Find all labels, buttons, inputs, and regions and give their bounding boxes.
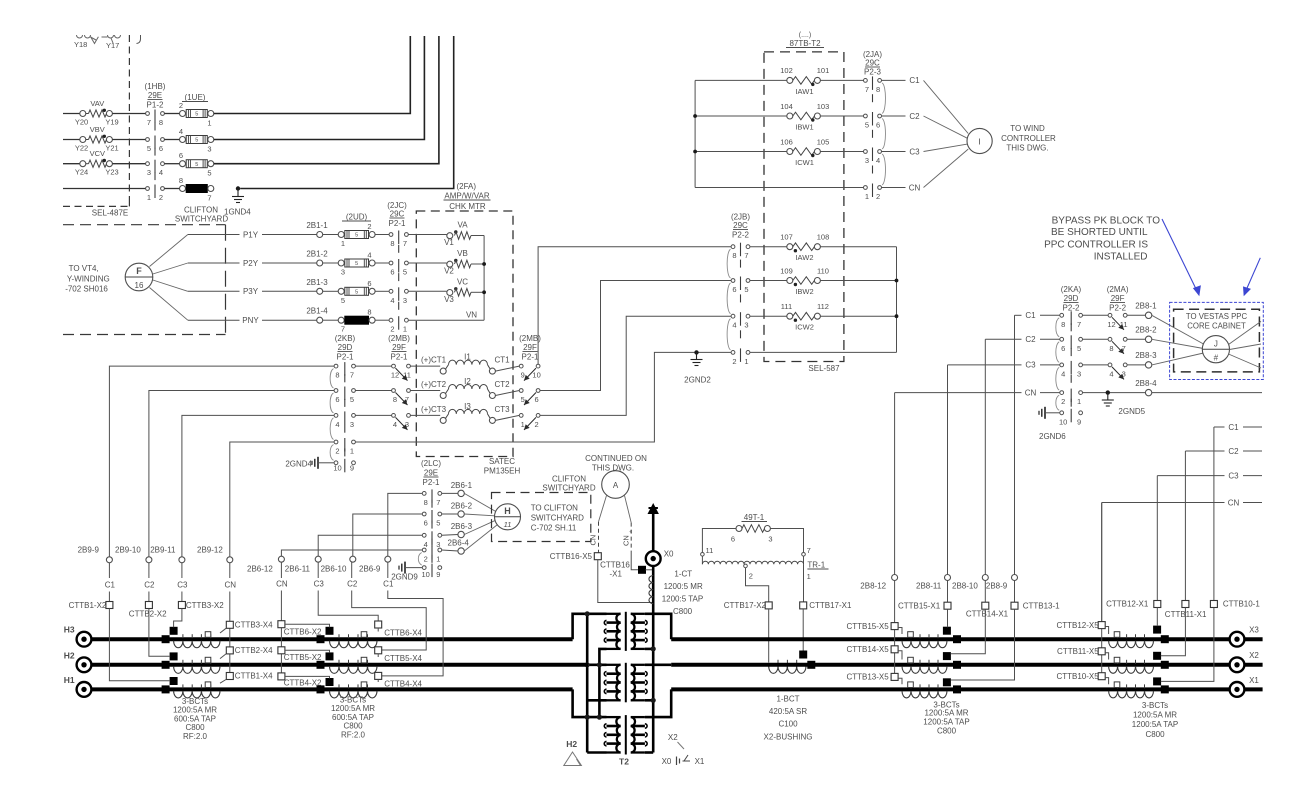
terminal block 2KA 29D P2-2 labels [1061, 285, 1082, 313]
svg-text:IBW2: IBW2 [795, 287, 813, 296]
svg-text:C1: C1 [383, 580, 394, 589]
bus X3 phase A right [671, 637, 1262, 641]
svg-text:109: 109 [780, 266, 793, 275]
wire [1127, 314, 1145, 316]
switch 2JB row 4-3 [727, 312, 750, 350]
svg-text:C800: C800 [937, 726, 957, 735]
svg-text:TO WIND: TO WIND [1010, 124, 1045, 133]
svg-text:C1: C1 [1025, 311, 1036, 320]
svg-text:P2-2: P2-2 [1063, 304, 1080, 313]
svg-text:CTTB11-X5: CTTB11-X5 [1057, 647, 1099, 656]
svg-text:3: 3 [341, 268, 345, 277]
svg-text:2B1-3: 2B1-3 [306, 278, 328, 287]
svg-text:4: 4 [1061, 369, 1065, 378]
wire [375, 234, 389, 236]
svg-text:2B6-2: 2B6-2 [451, 502, 473, 511]
svg-text:101: 101 [817, 66, 830, 75]
svg-text:110: 110 [817, 266, 829, 275]
switch 2KB row 10-9 [330, 445, 355, 473]
svg-text:7: 7 [744, 251, 748, 260]
terminal 2B1-4 [306, 307, 328, 324]
label CLIFTON SWITCHYARD (upper) [175, 206, 228, 224]
svg-text:3: 3 [865, 156, 869, 165]
switch 2MB row 8-7 [392, 389, 411, 405]
svg-text:8: 8 [335, 371, 339, 380]
label CLIFTON SWITCHYARD (H block) [542, 475, 595, 493]
svg-text:Y22: Y22 [75, 144, 88, 153]
svg-text:I: I [978, 137, 980, 147]
svg-text:VAV: VAV [90, 99, 104, 108]
svg-text:2: 2 [424, 555, 428, 564]
wire [164, 139, 179, 141]
svg-text:I3: I3 [464, 402, 471, 411]
switch 2MA row 8-7 [1108, 337, 1127, 353]
connector black square above bus [800, 651, 807, 658]
CT group D windings CTTB10-12 [1109, 632, 1154, 698]
resistor VA [444, 221, 471, 248]
svg-text:C800: C800 [673, 607, 693, 616]
svg-text:1200:5 TAP: 1200:5 TAP [662, 595, 704, 604]
svg-text:2B6-3: 2B6-3 [451, 522, 473, 531]
svg-text:C3: C3 [909, 147, 920, 156]
terminal CTTB13-X5 [846, 673, 898, 682]
fan wires J to right [1229, 321, 1262, 368]
black connector squares group D [1154, 626, 1169, 693]
riser 2B8-10 / C2 [984, 339, 986, 574]
blue wavy boundary Vestas PPC [1170, 302, 1264, 379]
svg-text:SWITCHYARD: SWITCHYARD [175, 215, 228, 224]
wire C1 group B [382, 562, 443, 676]
svg-text:2B9-12: 2B9-12 [197, 546, 223, 555]
svg-text:4: 4 [732, 321, 736, 330]
switch 2KB row 8-7 [330, 362, 355, 388]
svg-text:3: 3 [350, 420, 354, 429]
svg-text:6: 6 [390, 268, 394, 277]
svg-text:10: 10 [422, 570, 430, 579]
PT element VAV [86, 109, 107, 117]
svg-text:CTTB5-X4: CTTB5-X4 [384, 654, 422, 663]
terminal 2B6-12 [247, 556, 284, 573]
terminal CTTB3-X4 [226, 621, 273, 630]
terminal 2B8-12 [860, 575, 897, 591]
svg-text:V2: V2 [444, 267, 454, 276]
svg-text:1-CT: 1-CT [674, 570, 692, 579]
svg-text:2: 2 [876, 192, 880, 201]
switch 2KB row 2-1 [334, 438, 355, 456]
svg-text:11: 11 [504, 520, 512, 529]
switch 1HB row 1-2 [146, 185, 165, 203]
tap 2 of TR-1 [744, 564, 769, 602]
wire C2 from CT risers to 2KA [985, 335, 1060, 344]
wire C3 drop to CT group D [1157, 471, 1262, 600]
wire 2KB row 3 to 2B9 riser [182, 415, 334, 556]
svg-text:7: 7 [807, 546, 811, 555]
svg-text:CT3: CT3 [495, 405, 511, 414]
svg-text:5: 5 [1077, 344, 1081, 353]
shorting resistor IAW1 (102-101) [780, 66, 829, 96]
svg-text:1200:5A TAP: 1200:5A TAP [923, 718, 969, 727]
svg-text:104: 104 [780, 102, 793, 111]
terminal Y21 [106, 137, 112, 143]
svg-text:C1: C1 [105, 581, 116, 590]
svg-text:2: 2 [1061, 397, 1065, 406]
svg-text:4: 4 [424, 540, 428, 549]
wire CTTB11-X1 to CT middle [1161, 608, 1186, 656]
svg-text:P2-1: P2-1 [391, 353, 408, 362]
label group A ratings [173, 697, 217, 741]
svg-text:7: 7 [341, 325, 345, 334]
svg-text:1: 1 [744, 357, 748, 366]
terminal block 2JA 29C P2-3 labels [863, 50, 882, 77]
wire C1 to CT bottom [109, 609, 170, 681]
wire voltage common bus [482, 236, 486, 321]
svg-text:8: 8 [1109, 344, 1113, 353]
terminal X0 bullseye [646, 550, 674, 566]
svg-text:(1HB): (1HB) [145, 82, 166, 91]
svg-text:4: 4 [179, 127, 183, 136]
svg-text:P2-1: P2-1 [423, 478, 440, 487]
transformer TR-1 winding [702, 561, 828, 582]
svg-text:29E: 29E [424, 469, 438, 478]
svg-text:4: 4 [159, 168, 163, 177]
wire [1083, 314, 1109, 316]
wire row VAV [63, 113, 80, 115]
CT 1-CT winding on X0 [649, 576, 653, 604]
wire [410, 365, 440, 367]
svg-text:2GND5: 2GND5 [1118, 407, 1145, 416]
svg-text:Y24: Y24 [75, 168, 88, 177]
wire [820, 246, 896, 248]
switch 1HB row 7-8 [146, 110, 165, 131]
svg-text:5: 5 [195, 138, 198, 144]
svg-text:12: 12 [391, 371, 399, 380]
switch 2LC row 2-1 [422, 546, 441, 564]
wire 2KB row 2 to 2B9 riser [149, 391, 334, 557]
switch 2LC row 6-5 [422, 510, 441, 529]
wires CN to X2 blacks [285, 624, 330, 678]
fan wire A right [625, 496, 632, 523]
svg-text:C2: C2 [144, 581, 155, 590]
terminal X1 [1230, 676, 1260, 697]
black connector squares group A [162, 627, 177, 693]
svg-text:6: 6 [876, 121, 880, 130]
terminal block 2KB 29D P2-1 labels [335, 334, 356, 362]
svg-text:SATEC: SATEC [489, 457, 515, 466]
wire row 4 to riser [240, 36, 454, 189]
svg-text:CN: CN [622, 535, 631, 546]
svg-text:5: 5 [195, 162, 198, 168]
svg-text:TO VT4,: TO VT4, [69, 264, 99, 273]
svg-text:CN: CN [909, 183, 921, 192]
fuse 1UE row 6/5 [179, 151, 214, 178]
terminal 2B8-4 [1135, 379, 1157, 396]
svg-text:PM135EH: PM135EH [484, 467, 521, 476]
dashed box TO VESTAS PPC CORE CABINET [1174, 309, 1260, 372]
shorting resistor ICW2 (111-112) [781, 302, 829, 332]
svg-text:12: 12 [1107, 320, 1115, 329]
svg-text:Y18: Y18 [74, 40, 87, 49]
voltage input V1 [447, 230, 458, 238]
wire [410, 414, 440, 416]
bus X1 phase C right [671, 687, 1262, 691]
svg-text:49T-1: 49T-1 [744, 513, 765, 522]
svg-text:(....): (....) [799, 32, 811, 39]
terminal 2B8-9 [986, 575, 1018, 591]
terminal CTTB17-X1 [800, 564, 852, 610]
wire C1 from CT risers to 2KA [1015, 311, 1060, 320]
svg-text:6: 6 [424, 519, 428, 528]
svg-text:5: 5 [521, 395, 525, 404]
wire CT3 to 2JB pin 4 [540, 316, 731, 415]
switch 2JB row 8-7 [727, 243, 750, 278]
svg-text:X0: X0 [664, 550, 674, 559]
svg-text:X2: X2 [1249, 651, 1259, 660]
svg-text:2B8-1: 2B8-1 [1135, 302, 1157, 311]
svg-text:5: 5 [355, 290, 358, 296]
svg-text:-702 SH016: -702 SH016 [65, 285, 108, 294]
svg-text:7: 7 [1077, 320, 1081, 329]
svg-text:CTTB3-X4: CTTB3-X4 [235, 621, 273, 630]
riser 2B8-11 / C3 [947, 365, 949, 575]
svg-text:J: J [1214, 340, 1218, 349]
fuse block 2UD label [342, 213, 371, 222]
blue leader line 2 [1243, 258, 1260, 297]
label X2 wye grounding [662, 733, 705, 766]
svg-text:4: 4 [1109, 369, 1113, 378]
wire [355, 390, 391, 392]
wire [495, 415, 519, 420]
wire C2 drop to CT group D [1185, 447, 1262, 601]
svg-text:BYPASS PK BLOCK TO: BYPASS PK BLOCK TO [1052, 216, 1161, 227]
wire row 3 to riser [214, 36, 439, 164]
svg-text:(2LC): (2LC) [421, 459, 441, 468]
wire CTTB15-X1 to CT top [947, 609, 949, 627]
svg-text:(+)CT3: (+)CT3 [421, 405, 447, 414]
svg-text:H2: H2 [64, 650, 75, 660]
svg-text:CTTB2-X2: CTTB2-X2 [129, 609, 167, 618]
svg-text:C2: C2 [1025, 335, 1036, 344]
bus H3 phase A left [92, 637, 573, 641]
svg-text:C3: C3 [1025, 361, 1036, 370]
switch 2MB right row 5-6 [519, 389, 540, 405]
svg-text:CTTB12-X5: CTTB12-X5 [1056, 621, 1099, 630]
switch 1HB row 5-6 [146, 136, 165, 156]
terminal 2B8-3 [1135, 351, 1157, 368]
label 1-BCT 420:5A SR C100 X2-BUSHING [764, 695, 813, 742]
switch 2KA row 8-7 [1056, 311, 1083, 337]
wire row 2 to riser [214, 36, 425, 140]
svg-text:Y19: Y19 [105, 118, 118, 127]
fuse 1UE row 8/7 (solid link) [179, 176, 214, 203]
resistor VB [444, 249, 471, 276]
svg-text:103: 103 [817, 102, 830, 111]
shorting resistor IBW1 (104-103) [780, 102, 829, 132]
svg-text:Y20: Y20 [75, 118, 88, 127]
terminal Y22 [80, 137, 86, 143]
wire [164, 113, 179, 115]
svg-text:CTTB3-X2: CTTB3-X2 [186, 601, 224, 610]
svg-text:CT1: CT1 [495, 356, 511, 365]
svg-text:Y17: Y17 [106, 41, 119, 50]
fuse 2UD row 7/8 (solid link) [338, 308, 375, 334]
svg-text:3-BCTs: 3-BCTs [182, 697, 208, 706]
wire [408, 262, 447, 264]
svg-text:29D: 29D [1064, 294, 1079, 303]
wire C3 group B [314, 562, 379, 621]
wire [323, 319, 339, 321]
switch 2LC row 4-3 [422, 531, 441, 549]
svg-text:3: 3 [403, 296, 407, 305]
bushing CT 1-BCT winding [769, 660, 806, 674]
terminal CTTB12-X5 [1056, 621, 1105, 630]
switch 2MA row 4-3 [1108, 363, 1127, 379]
svg-text:1: 1 [350, 447, 354, 456]
wire [1083, 338, 1109, 340]
fan wire to J [1152, 315, 1204, 344]
switch 2KB row 4-3 [330, 411, 355, 439]
svg-text:3: 3 [1077, 369, 1081, 378]
wire [1083, 364, 1109, 366]
cut-off terminal fragment Y17 [102, 35, 121, 50]
svg-text:P2-2: P2-2 [1109, 304, 1126, 313]
terminal Y24 [80, 161, 86, 167]
switch 2KA row 4-3 [1056, 361, 1083, 390]
ground 2GND9 [391, 562, 422, 582]
svg-text:C1: C1 [1228, 423, 1239, 432]
wire CTTB17-X2 down to bushing CT [768, 609, 770, 663]
svg-text:1200:5A MR: 1200:5A MR [173, 706, 217, 715]
switch 2MB right row 9-10 [519, 364, 540, 380]
svg-text:IBW1: IBW1 [795, 123, 813, 132]
terminal 2B6-2 [451, 502, 473, 518]
dashed lead CN right [622, 523, 637, 552]
shorting resistor ICW1 (106-105) [780, 137, 829, 167]
wire C1 label [105, 563, 116, 602]
svg-text:5: 5 [350, 395, 354, 404]
svg-text:CTTB14-X1: CTTB14-X1 [966, 610, 1009, 619]
svg-text:2B6-9: 2B6-9 [359, 565, 381, 574]
svg-text:I1: I1 [464, 353, 471, 362]
svg-text:C2: C2 [909, 112, 920, 121]
svg-text:P2-2: P2-2 [732, 231, 749, 240]
blue note BYPASS PK BLOCK [1044, 216, 1160, 263]
svg-text:P2-1: P2-1 [337, 353, 354, 362]
terminal 2B9-11 [150, 546, 185, 563]
ground 2GND6 [1039, 407, 1066, 441]
label SATEC PM135EH [484, 457, 521, 476]
terminals CTTB6-X4 CTTB5-X4 CTTB4-X4 [375, 621, 423, 689]
terminal Y23 [106, 161, 112, 167]
dashed box VT junction [63, 225, 226, 335]
wire CN to wind controller [882, 149, 969, 192]
terminal CTTB2-X2 [129, 602, 167, 619]
terminal 2B1-1 [306, 221, 328, 238]
wire [355, 414, 391, 416]
svg-text:106: 106 [780, 137, 793, 146]
svg-text:1: 1 [147, 193, 151, 202]
resistor 49T-1 [731, 513, 773, 544]
switch 2KA row 2-1 [1060, 389, 1083, 407]
svg-text:X2-BUSHING: X2-BUSHING [764, 732, 813, 741]
wire VN row [408, 311, 484, 321]
switch 2JA row 3-4 [864, 148, 886, 186]
svg-text:CTTB4-X4: CTTB4-X4 [384, 680, 422, 689]
CT coil I3 [421, 402, 510, 424]
black connector squares group C [943, 627, 960, 693]
svg-text:C3: C3 [177, 581, 188, 590]
svg-text:29C: 29C [865, 59, 880, 68]
terminal CTTB1-X4 [226, 672, 273, 681]
svg-text:2: 2 [749, 572, 753, 581]
wire row VBV [63, 139, 80, 141]
svg-text:C800: C800 [1145, 730, 1165, 739]
svg-text:111: 111 [781, 302, 792, 311]
svg-text:2B8-3: 2B8-3 [1135, 351, 1157, 360]
wire CT1 to 2JB pin 8 [538, 247, 731, 365]
wire CT common return to 2JB pin 2 [355, 352, 731, 442]
label CONTINUED ON THIS DWG. [585, 454, 647, 473]
svg-text:16: 16 [135, 281, 144, 290]
svg-text:8: 8 [159, 118, 163, 127]
transformer T2 windings [604, 612, 647, 755]
wire [471, 291, 484, 293]
fuse 1UE row 2/1 [179, 101, 214, 128]
wire CN from CT risers to 2KA [895, 388, 1060, 397]
svg-text:2: 2 [367, 222, 371, 231]
wire [408, 290, 447, 292]
wire P3Y [188, 287, 317, 296]
svg-text:A: A [613, 481, 619, 490]
terminal block 2MB 29F P2-1 (right) labels [519, 334, 541, 362]
svg-text:PPC CONTROLLER IS: PPC CONTROLLER IS [1044, 240, 1148, 251]
svg-text:CTTB5-X2: CTTB5-X2 [284, 653, 322, 662]
svg-text:2GND6: 2GND6 [1039, 432, 1066, 441]
wire P1Y [188, 230, 317, 239]
svg-text:10: 10 [333, 464, 341, 473]
wire 2KB row 4 to 2B9 riser [230, 442, 334, 557]
svg-text:P2Y: P2Y [243, 259, 259, 268]
fuse 2UD row 1/2 [338, 222, 375, 248]
svg-text:1: 1 [436, 555, 440, 564]
svg-text:2B8-2: 2B8-2 [1135, 326, 1157, 335]
svg-text:4: 4 [390, 296, 394, 305]
svg-text:2B9-11: 2B9-11 [150, 546, 176, 555]
switch 2MB row 4-3 [392, 414, 411, 430]
svg-text:29F: 29F [392, 343, 406, 352]
fuse 1UE row 4/3 [179, 127, 214, 154]
svg-text:5: 5 [207, 169, 211, 178]
svg-text:29E: 29E [148, 91, 162, 100]
svg-text:107: 107 [780, 233, 793, 242]
terminal 2B8-11 [916, 575, 951, 591]
svg-text:CTTB1-X4: CTTB1-X4 [235, 672, 273, 681]
svg-text:P2-3: P2-3 [864, 68, 881, 77]
terminal CTTB11-X1 [1165, 601, 1207, 619]
terminal 2B6-1 [451, 481, 473, 497]
svg-text:2: 2 [179, 101, 183, 110]
wire to terminal 2B6-1 [442, 492, 459, 494]
wire 2LC row 3 to 2B6 riser [318, 535, 422, 556]
svg-text:2: 2 [335, 447, 339, 456]
svg-text:2B8-10: 2B8-10 [952, 581, 978, 590]
svg-text:CN: CN [589, 535, 598, 546]
terminal 2B6-4 [448, 539, 470, 555]
wire C1 drop to CT group D [1214, 423, 1262, 601]
svg-text:9: 9 [350, 464, 354, 473]
wire [164, 188, 179, 190]
label group D ratings [1132, 701, 1178, 739]
resistor VC [444, 277, 471, 304]
